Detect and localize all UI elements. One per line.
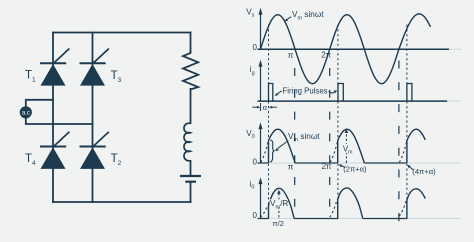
svg-text:(4π+α): (4π+α) <box>412 167 436 176</box>
ac source V <box>20 106 32 118</box>
V0 hump 3 (cut) <box>407 129 425 163</box>
i0 dashed lead-in 3 <box>399 201 406 216</box>
wire left bridge leg <box>52 32 54 203</box>
thyristor T3 <box>80 49 109 86</box>
dashed line 4pi+alpha <box>406 25 408 222</box>
dashed line alpha <box>268 25 270 222</box>
wire load branch L-to-battery segment <box>190 160 192 176</box>
svg-text:Firing Pulses: Firing Pulses <box>283 87 328 96</box>
alpha dimension annotation <box>252 103 276 112</box>
Vs plot x-axis <box>258 48 450 50</box>
svg-text:a.c: a.c <box>22 111 30 117</box>
dashed line pi <box>294 61 296 220</box>
annotation arrow to brace <box>278 141 289 149</box>
dashed line 2pi <box>329 61 331 220</box>
V0 dashed lead-in 1 <box>261 142 268 163</box>
thyristor T2 <box>80 132 109 169</box>
arrow to 4pi+alpha foot <box>410 167 413 170</box>
V0 hump 1 <box>269 129 296 163</box>
svg-text:π/2: π/2 <box>272 219 284 228</box>
arrow to pulse 2 <box>329 91 335 93</box>
firing pulse 3 <box>407 84 412 102</box>
arrow to pulse 1 <box>277 91 282 94</box>
V0 dashed lead-in 3 <box>399 142 406 163</box>
firing pulse 2 <box>338 84 343 102</box>
V0 hump 2 <box>338 129 365 163</box>
V0 dashed lead-in 2 <box>330 142 337 163</box>
arrow to 2pi+alpha foot <box>342 166 346 168</box>
Vm arrow annotation (V0 hump2) <box>345 132 347 164</box>
Vs sine curve <box>261 14 431 84</box>
annotation arrow to Vs curve <box>287 17 291 20</box>
i0 plot x-axis <box>258 218 462 220</box>
svg-text:(2π+α): (2π+α) <box>343 165 367 174</box>
ig plot x-axis <box>258 100 448 102</box>
svg-text:2π: 2π <box>321 51 331 60</box>
svg-text:0: 0 <box>253 43 258 52</box>
inductor L load <box>184 123 191 161</box>
ig plot y-axis <box>260 65 262 101</box>
svg-text:0: 0 <box>253 211 258 220</box>
svg-text:2π: 2π <box>322 162 332 171</box>
wire right bridge leg <box>92 32 94 203</box>
V0 zero-trace segments <box>258 162 407 164</box>
V0 plot y-axis <box>260 128 262 164</box>
thyristor T1 <box>40 49 69 86</box>
brace annotation at alpha <box>270 140 274 162</box>
svg-text:α: α <box>263 103 268 112</box>
Vm/R arrow annotation <box>278 193 280 218</box>
firing pulse 1 <box>269 84 273 102</box>
wire load branch top segment <box>190 32 192 52</box>
wire ac bottom terminal <box>26 118 94 124</box>
wire load branch bottom segment <box>190 182 192 203</box>
dashed line 4pi <box>398 61 400 223</box>
i0 plot y-axis <box>260 183 262 219</box>
i0 dashed lead-in 1 <box>260 205 267 218</box>
i0 hump 3 (cut) <box>407 189 425 219</box>
i0 zero-trace segments <box>258 218 407 220</box>
i0 hump 2 <box>338 188 363 219</box>
svg-text:0: 0 <box>253 158 258 167</box>
V0 plot x-axis <box>258 162 462 164</box>
wire top rail <box>52 32 191 34</box>
svg-text:π: π <box>288 50 294 60</box>
resistor R load <box>183 51 198 90</box>
wire ac top terminal <box>26 100 54 107</box>
i0 dashed lead-in 2 <box>330 200 337 217</box>
wire bottom rail <box>52 201 191 203</box>
thyristor T4 <box>40 132 69 169</box>
battery E load <box>180 176 201 182</box>
wire load branch R-to-L segment <box>190 88 192 124</box>
svg-text:π: π <box>288 162 294 172</box>
i0 hump 1 <box>269 188 295 218</box>
dashed line 2pi+alpha <box>337 25 339 221</box>
Vs plot y-axis <box>260 13 262 49</box>
